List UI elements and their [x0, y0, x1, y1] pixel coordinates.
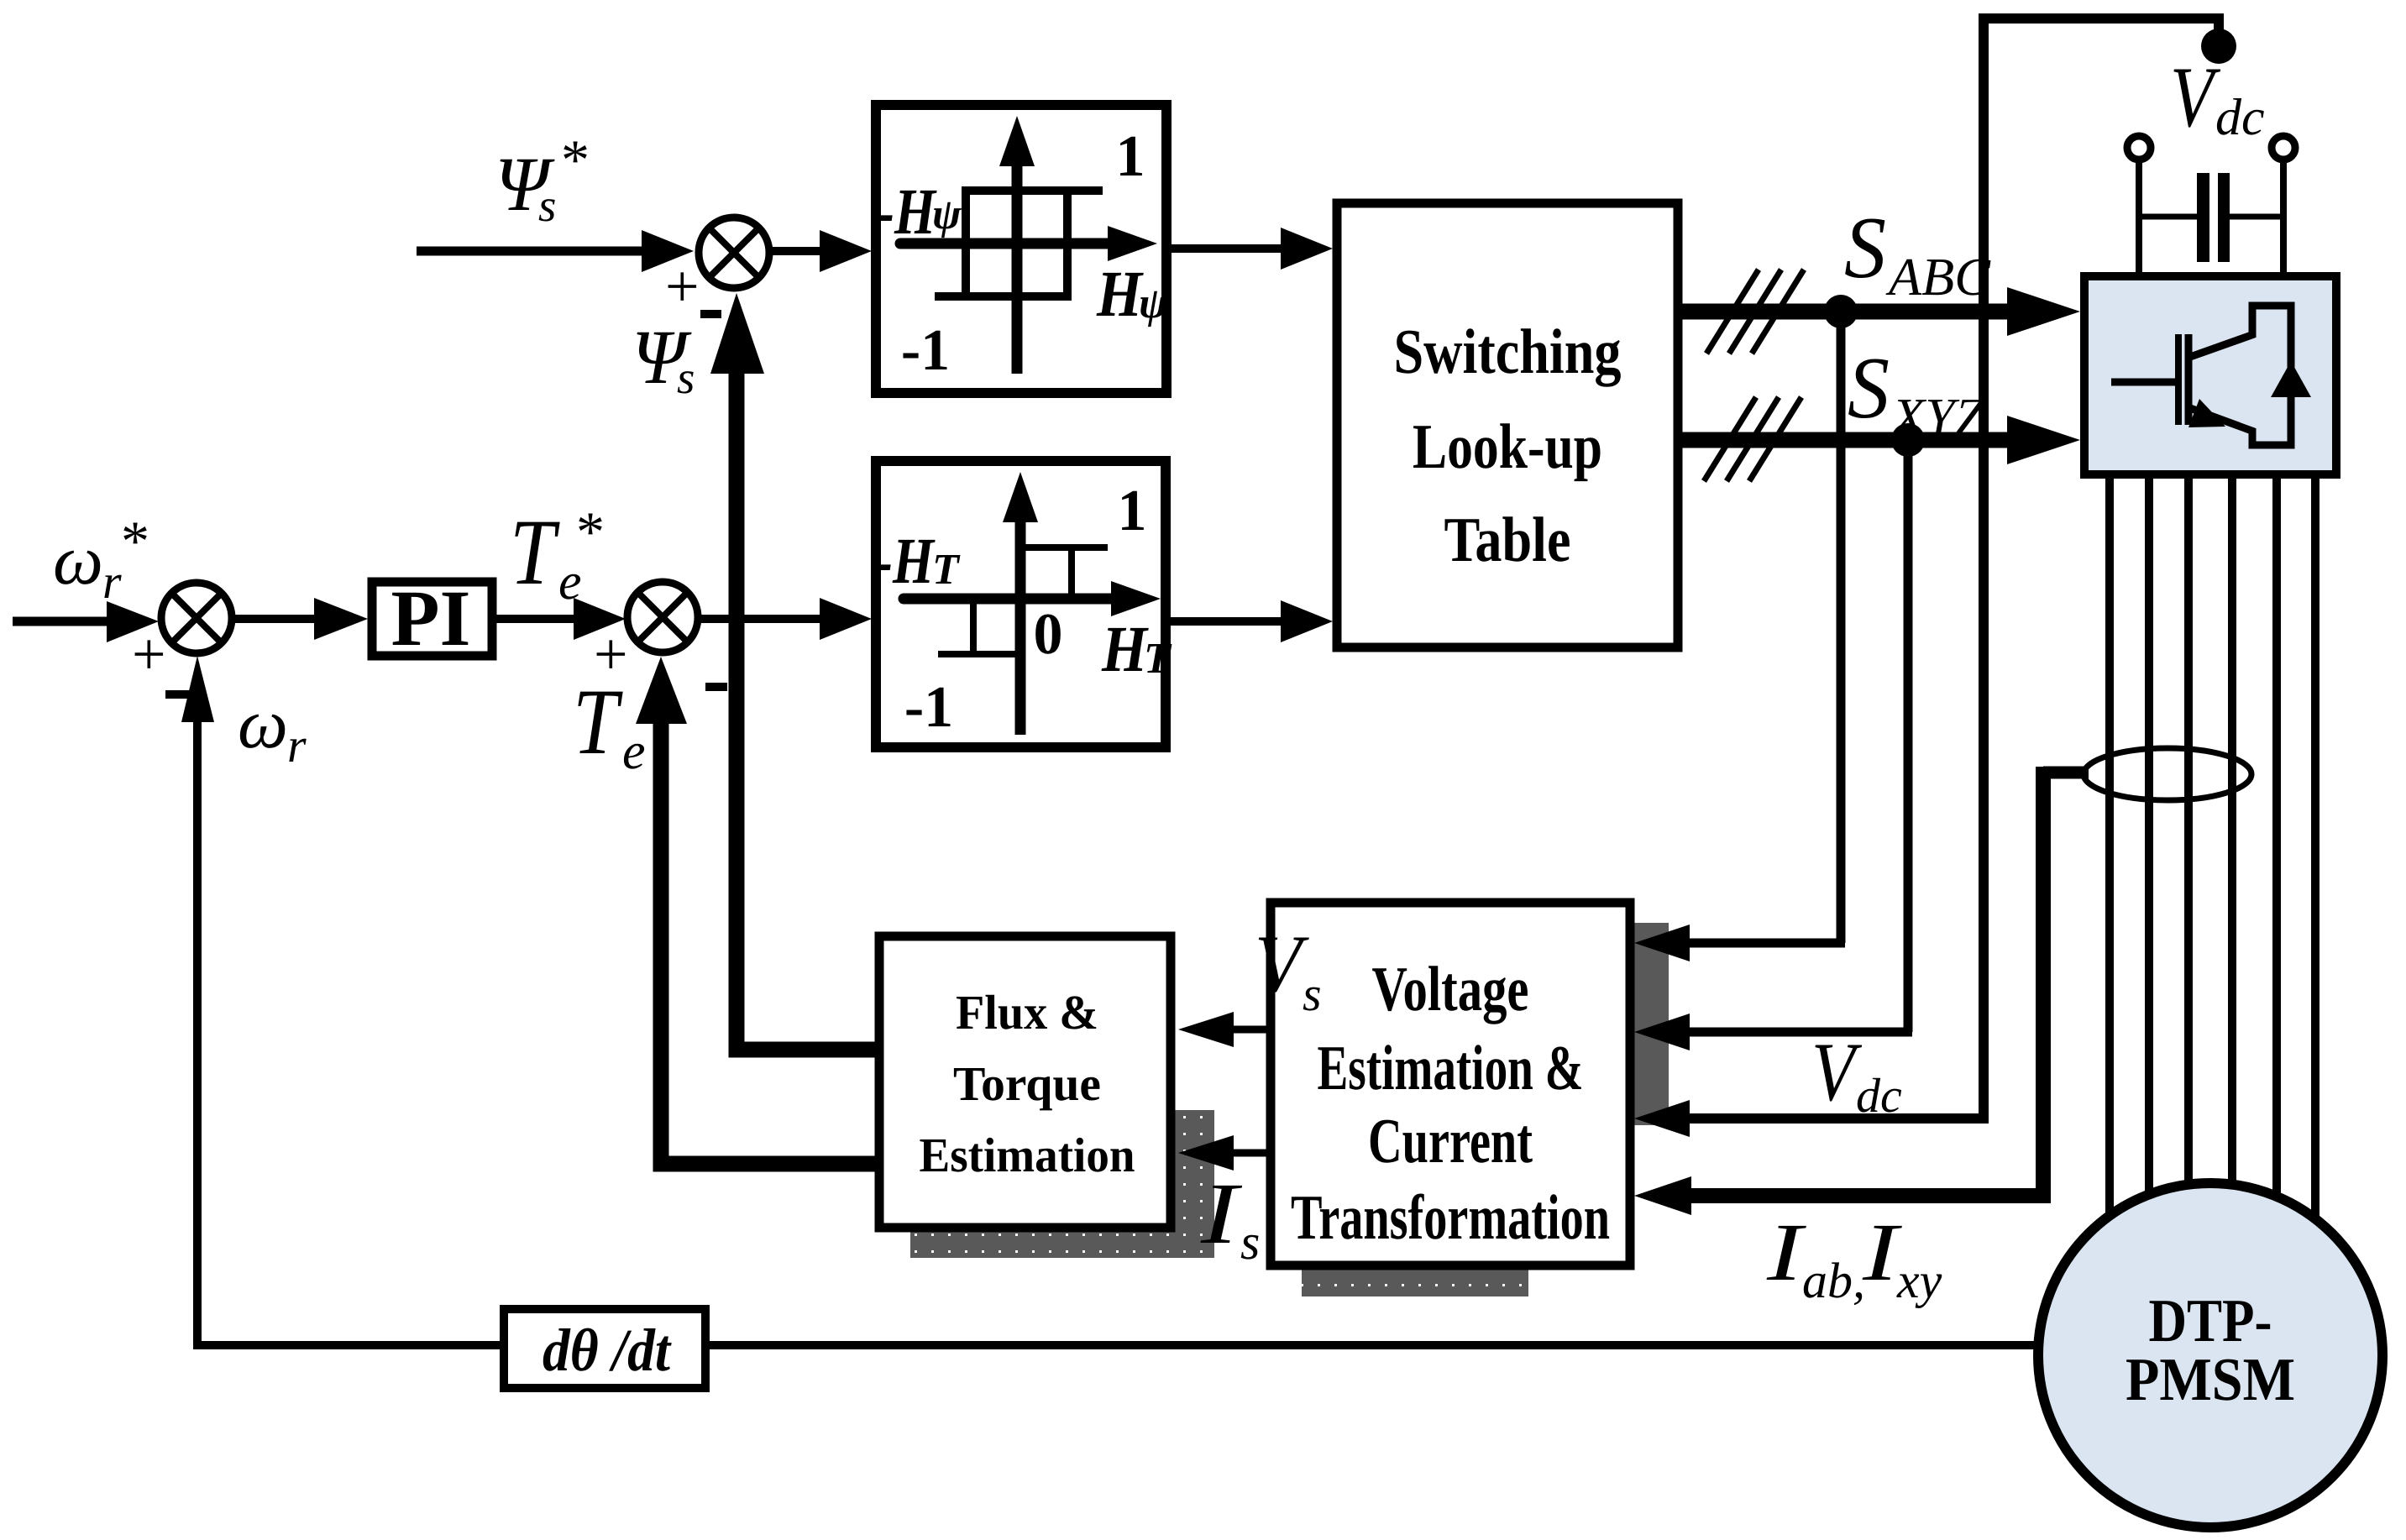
label V_dc at voltage estimator [1811, 1025, 1902, 1123]
motor DTP-PMSM [2038, 1183, 2382, 1527]
svg-text:1: 1 [1118, 479, 1147, 543]
flux hysteresis vertical axis [1012, 160, 1023, 374]
svg-text:PI: PI [391, 574, 471, 663]
svg-text:Flux &: Flux & [956, 985, 1098, 1040]
svg-text:ab,: ab, [1802, 1253, 1865, 1308]
block switching look-up table [1337, 203, 1678, 647]
svg-text:xy: xy [1896, 1253, 1942, 1308]
wire torque hysteresis to switching table [1171, 617, 1285, 626]
label I_ab I_xy [1766, 1207, 1942, 1308]
wire flux reference input [417, 247, 642, 256]
arrow into torque hysteresis block [820, 598, 872, 640]
block flux hysteresis comparator [876, 105, 1166, 393]
torque hysteresis upper step tick [1068, 547, 1075, 599]
shadow of voltage estimator (solid right strip) [1634, 923, 1669, 1125]
wire capacitor right lead [2230, 214, 2283, 220]
svg-text:ψ: ψ [932, 191, 962, 238]
svg-text:s: s [677, 352, 695, 403]
svg-text:PMSM: PMSM [2126, 1345, 2295, 1413]
svg-text:1: 1 [1116, 124, 1145, 189]
svg-text:Transformation: Transformation [1291, 1182, 1610, 1253]
svg-text:-H: -H [877, 175, 937, 248]
wire T_e feedback from flux-torque estimator [661, 718, 875, 1164]
terminal circle DC plus [2127, 136, 2151, 160]
arrow torque hysteresis y-axis [1003, 472, 1038, 522]
wire speed-reference input [13, 617, 113, 626]
svg-text:s: s [538, 180, 556, 231]
label Psi_s-star [495, 128, 590, 231]
svg-text:dc: dc [2215, 89, 2265, 146]
wire DC minus terminal to inverter [2280, 160, 2287, 277]
arrow I_s into flux estimator [1178, 1135, 1234, 1171]
arrow into flux hysteresis block [820, 230, 872, 272]
svg-text:DTP-: DTP- [2149, 1286, 2272, 1354]
wire from S_XYZ dot down to voltage estimator [1904, 440, 1913, 1032]
svg-text:Look-up: Look-up [1413, 411, 1602, 482]
wire flux junction to flux hysteresis [769, 247, 825, 255]
svg-text:ω: ω [53, 521, 103, 600]
arrow torque hysteresis x-axis [1111, 581, 1161, 616]
svg-text:H: H [1101, 612, 1149, 685]
slash marks S_ABC bus [1706, 270, 1804, 354]
arrow into flux summing junction [642, 230, 694, 272]
wire current measurement down [1688, 767, 2043, 1196]
svg-text:-1: -1 [901, 318, 950, 383]
svg-text:dc: dc [1856, 1068, 1902, 1123]
svg-text:I: I [1200, 1165, 1243, 1262]
capacitor DC link left plate [2197, 173, 2209, 262]
arrow into switching table from torque comparator [1281, 600, 1333, 642]
svg-text:s: s [1303, 966, 1322, 1021]
wire omega_r feedback vertical [193, 714, 202, 1345]
block d-theta/dt [504, 1309, 705, 1388]
wire S_ABC bus from table to inverter [1682, 304, 2015, 320]
torque hysteresis lower step tick [970, 599, 977, 654]
block voltage estimation and current transformation [1271, 903, 1630, 1265]
IGBT emitter arrow [2188, 399, 2225, 427]
arrow omega_r into speed junction [181, 656, 214, 722]
label T_e feedback [573, 670, 646, 780]
svg-text:Switching: Switching [1394, 317, 1622, 387]
svg-text:Current: Current [1368, 1106, 1533, 1176]
svg-text:-1: -1 [904, 675, 953, 740]
svg-text:dθ /dt: dθ /dt [543, 1317, 672, 1384]
svg-text:s: s [1240, 1214, 1260, 1270]
arrow into speed summing junction [107, 601, 159, 642]
freewheeling diode triangle [2271, 361, 2311, 397]
label -H_psi [877, 175, 962, 248]
label Psi_s feedback [632, 314, 695, 403]
wire V_dc sense line (top feedback) [1984, 18, 2219, 1118]
svg-text:*: * [561, 128, 590, 191]
block flux and torque estimation [879, 936, 1171, 1228]
svg-text:ψ: ψ [1139, 280, 1169, 327]
IGBT collector diagonal [2190, 334, 2254, 357]
svg-text:H: H [1096, 257, 1144, 330]
block PI [372, 574, 492, 663]
arrow into PI [314, 598, 368, 640]
arrow flux hysteresis y-axis [999, 116, 1035, 166]
label I_s [1200, 1165, 1261, 1270]
shadow of voltage estimator (stipple bottom) [1302, 1270, 1528, 1296]
arrow T_e into torque junction [636, 657, 687, 724]
block inverter (VSI) [2084, 276, 2336, 474]
block torque hysteresis comparator [876, 461, 1166, 747]
wire torque junction to torque hysteresis [698, 615, 825, 623]
svg-text:r: r [287, 718, 307, 773]
current sensor ellipse [2084, 748, 2251, 800]
svg-text:+: + [132, 621, 166, 688]
IGBT body bar [2185, 334, 2193, 425]
svg-text:0: 0 [1034, 602, 1063, 667]
svg-text:T: T [1144, 635, 1172, 683]
label H_T [1101, 612, 1172, 685]
label S_XYZ [1848, 338, 1986, 447]
svg-text:ABC: ABC [1885, 247, 1991, 306]
arrow V_dc line into voltage estimator right side [1688, 1113, 1989, 1124]
flux hysteresis loop top segment [962, 186, 1103, 195]
flux hysteresis loop left segment [962, 186, 970, 296]
IGBT outer loop with freewheeling diode line [2252, 306, 2291, 445]
torque hysteresis lower step segment [938, 651, 1020, 657]
torque hysteresis horizontal axis [904, 594, 1116, 605]
svg-text:T: T [932, 546, 961, 594]
wire motor to d-theta/dt [710, 1341, 2038, 1349]
svg-text:Estimation: Estimation [920, 1128, 1135, 1182]
label T_e-star [510, 500, 605, 610]
label V_dc top [2170, 50, 2265, 146]
svg-text:+: + [665, 253, 700, 320]
svg-text:T: T [573, 670, 623, 774]
wire current sensor stub [2043, 767, 2089, 779]
flux hysteresis loop bottom segment [935, 292, 1072, 301]
IGBT emitter diagonal [2190, 408, 2254, 432]
label S_ABC [1844, 198, 1991, 306]
label omega_r [238, 685, 307, 773]
slash marks S_XYZ bus [1704, 397, 1801, 481]
wire Psi_s feedback from flux-torque estimator [736, 361, 875, 1050]
arrow I_ab I_xy into voltage estimator [1634, 1176, 1691, 1215]
svg-text:I: I [1766, 1207, 1807, 1298]
arrow V_s into flux estimator [1178, 1012, 1234, 1047]
svg-text:V: V [1255, 919, 1309, 1008]
terminal circle DC minus [2272, 136, 2295, 160]
svg-text:*: * [121, 509, 149, 573]
svg-text:S: S [1844, 198, 1886, 296]
wire from S_ABC dot down to voltage estimator [1837, 312, 1846, 943]
wire PI to torque junction [496, 615, 579, 623]
torque hysteresis upper step segment [1020, 544, 1108, 551]
arrow S_ABC into inverter [2007, 287, 2080, 336]
six phase wires inverter to motor [2110, 470, 2315, 1222]
svg-text:Estimation &: Estimation & [1318, 1033, 1584, 1103]
junction dot on S_XYZ bus [1891, 423, 1925, 457]
summing junction torque [627, 582, 698, 652]
wire flux hysteresis to switching table [1172, 244, 1285, 253]
flux hysteresis loop right segment [1063, 191, 1072, 301]
flux hysteresis horizontal axis [900, 238, 1113, 249]
capacitor DC link right plate [2218, 173, 2230, 262]
minus sign at torque junction [705, 683, 727, 691]
label V_s [1255, 919, 1322, 1021]
label omega_r-star [53, 509, 149, 609]
minus sign at speed junction [165, 690, 190, 699]
svg-text:e: e [622, 723, 646, 780]
wire I_s from voltage estimator to flux estimator [1231, 1150, 1271, 1157]
minus sign at flux junction [700, 310, 721, 318]
svg-text:V: V [1811, 1025, 1862, 1118]
svg-text:r: r [102, 554, 122, 609]
svg-text:*: * [576, 500, 605, 563]
arrow S_XYZ into inverter [2007, 416, 2080, 464]
arrow Psi_s into flux junction [710, 293, 764, 374]
svg-text:S: S [1848, 338, 1890, 437]
wire speed junction to PI [232, 615, 319, 623]
svg-text:ω: ω [238, 685, 288, 763]
svg-text:Torque: Torque [953, 1056, 1101, 1111]
wire DC plus terminal to inverter [2136, 160, 2142, 277]
node V_dc sense dot [2201, 29, 2236, 64]
svg-text:T: T [510, 500, 560, 605]
arrow into torque junction [574, 598, 626, 640]
IGBT gate lead [2111, 379, 2175, 386]
shadow of flux-torque estimator (stipple) [910, 1110, 1214, 1258]
IGBT gate bar [2175, 334, 2182, 425]
svg-text:V: V [2170, 50, 2220, 145]
wire S_XYZ bus from table to inverter [1682, 432, 2015, 448]
arrow into switching table from flux comparator [1281, 228, 1333, 270]
summing junction flux [699, 217, 769, 288]
summing junction speed (omega) [161, 583, 232, 653]
torque hysteresis vertical axis [1015, 516, 1026, 735]
arrow S_XYZ line into voltage estimator right side [1688, 1028, 1912, 1037]
arrow S_ABC line into voltage estimator right side [1688, 939, 1845, 948]
svg-text:Voltage: Voltage [1372, 954, 1529, 1024]
svg-text:Table: Table [1444, 505, 1571, 575]
label -H_T [875, 524, 961, 597]
junction dot on S_ABC bus [1824, 295, 1858, 328]
wire d-theta/dt to speed feedback riser [193, 1341, 504, 1349]
wire capacitor left lead [2139, 214, 2197, 220]
arrow flux hysteresis x-axis [1108, 226, 1157, 261]
svg-text:-H: -H [875, 524, 936, 597]
label H_psi [1096, 257, 1169, 330]
wire V_s from voltage estimator to flux estimator [1231, 1026, 1271, 1034]
